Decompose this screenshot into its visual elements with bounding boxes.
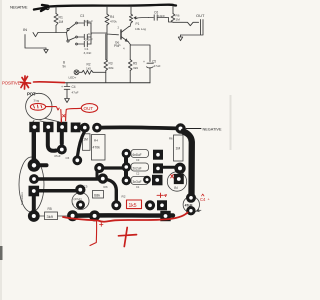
- svg-text:3n3uF: 3n3uF: [133, 180, 142, 184]
- small pad row3 body end: [144, 176, 151, 183]
- svg-text:6.8nF: 6.8nF: [85, 19, 93, 23]
- capacitor C3: [76, 22, 78, 24]
- resistor R2: [79, 71, 82, 73]
- svg-text:C6: C6: [66, 156, 70, 160]
- trace pad to pad vertical: [96, 171, 99, 178]
- red plus near IN: [157, 193, 167, 197]
- negative pad: [176, 124, 185, 133]
- svg-text:R6: R6: [169, 137, 173, 141]
- wire caps join: [91, 23, 107, 44]
- svg-text:LED+: LED+: [69, 76, 77, 80]
- trace SP3 down: [60, 132, 64, 144]
- wire emitter node: [128, 42, 150, 62]
- potentiometer P1: [129, 14, 132, 23]
- svg-text:+: +: [61, 85, 63, 89]
- svg-text:R1: R1: [59, 16, 63, 20]
- svg-text:3,3nF: 3,3nF: [84, 51, 92, 55]
- top long trace to negative pad: [101, 125, 176, 130]
- svg-text:R2: R2: [122, 195, 126, 199]
- svg-text:R5: R5: [133, 62, 137, 66]
- R3 outline 68k: [104, 185, 108, 189]
- resistor R3: [104, 60, 108, 71]
- capacitor C6: [149, 15, 167, 20]
- label IN: [23, 27, 27, 32]
- C6 pcb label 47uF: [54, 154, 70, 160]
- svg-text:1M: 1M: [83, 138, 88, 142]
- C5 outline (pencil circle on pcb): [72, 193, 89, 210]
- battery label B 9v: [63, 61, 67, 69]
- svg-text:1k5: 1k5: [129, 203, 137, 209]
- svg-text:R4: R4: [94, 139, 98, 143]
- transistor outline (pencil ellipse): [19, 157, 44, 212]
- red 1k5 box: [127, 200, 142, 209]
- svg-text:470k: 470k: [110, 20, 117, 24]
- svg-text:C3: C3: [136, 158, 140, 162]
- cap left pad row1: [122, 149, 130, 157]
- input jack: [25, 35, 46, 49]
- transistor leg1 pad: [28, 159, 46, 171]
- red C4 label: [200, 197, 211, 202]
- svg-text:POT: POT: [27, 92, 36, 97]
- ground (output): [178, 35, 182, 41]
- square pad SP3: [57, 122, 66, 131]
- svg-text:470k: 470k: [93, 146, 101, 150]
- svg-text:C2: C2: [136, 172, 140, 176]
- LED D1: [74, 70, 79, 75]
- svg-text:C4: C4: [72, 85, 76, 89]
- label POSITIVE (red): [2, 81, 21, 86]
- square pad SP4: [71, 123, 80, 132]
- IN square pad: [174, 174, 183, 183]
- ground (input jack): [44, 48, 48, 53]
- arrow to C4 bottom pad: [197, 209, 201, 212]
- svg-text:C5: C5: [152, 60, 156, 64]
- svg-text:R4: R4: [110, 15, 114, 19]
- svg-text:PNP: PNP: [114, 44, 121, 48]
- trace base pad to R2 pad: [107, 180, 117, 202]
- red X mark bottom: [119, 228, 137, 247]
- red bottom wire: [63, 213, 188, 222]
- R5 outline + 3k9: [48, 207, 52, 211]
- wire rail to R3: [105, 34, 107, 60]
- red line pot to board + arrow: [46, 106, 56, 108]
- svg-text:3 lug: 3 lug: [34, 99, 40, 103]
- pad (R4 bottom): [95, 163, 104, 172]
- pad (R2 left): [112, 201, 121, 210]
- negative rail (top, thick): [49, 5, 176, 7]
- cap right square pad row1: [154, 150, 163, 159]
- NEGATIVE pad pointer line: [186, 128, 201, 130]
- cap left pad row2: [122, 163, 130, 171]
- svg-text:68k: 68k: [109, 66, 114, 70]
- cap right square pad row2: [154, 164, 163, 173]
- pad mid (base node): [98, 174, 107, 183]
- cap left pad row3: [122, 176, 130, 184]
- wire rail to R4: [106, 6, 108, 14]
- red stub down from bottom wire: [90, 221, 97, 246]
- switch SW1: [67, 28, 69, 30]
- C4 pad top: [187, 193, 196, 202]
- wire R4 to base node: [107, 25, 119, 60]
- red tick above SP3: [60, 119, 62, 122]
- red annotations: [2, 76, 211, 247]
- positive rail (bottom of schematic): [64, 82, 150, 84]
- capacitor C5: [147, 63, 154, 68]
- svg-text:NEGATIVE: NEGATIVE: [10, 4, 28, 9]
- C5 pcb pad: [77, 201, 85, 209]
- svg-text:2n2uF: 2n2uF: [133, 166, 142, 170]
- pot wire lines to pads: [33, 119, 59, 123]
- round pad RPa: [80, 123, 89, 132]
- red tick SP3: [63, 115, 66, 118]
- wire output node to jack: [173, 22, 199, 25]
- R2 right pads: [145, 201, 154, 210]
- bottom pad 2: [90, 211, 100, 221]
- page left edge shadow: [0, 0, 2, 300]
- red tick at IN pad: [171, 174, 174, 178]
- thick copper traces: [28, 122, 195, 221]
- ground (C4): [65, 97, 70, 103]
- transistor leg3 square pad + trace right: [29, 186, 76, 196]
- cap column vertical trace: [124, 151, 128, 181]
- C4 outline (pencil circle, big electrolytic): [183, 196, 199, 212]
- svg-text:10k Log: 10k Log: [135, 27, 146, 31]
- big right pad (row2): [175, 163, 185, 173]
- square pad SP1: [30, 122, 39, 131]
- red wire lug2 down to SP3: [60, 110, 63, 122]
- wire rail to P1: [130, 6, 132, 14]
- trace leg3 down to bottom pad: [32, 196, 36, 211]
- negative rail arrow blob: [34, 5, 49, 11]
- trace SP1 down: [32, 132, 36, 160]
- svg-text:IN: IN: [174, 186, 178, 190]
- resistor R1: [54, 14, 58, 26]
- C4 pad bottom: [187, 207, 195, 215]
- red scribble X (positive lead): [21, 76, 31, 89]
- right edge trace down to C4: [184, 132, 192, 195]
- svg-text:C3: C3: [80, 14, 84, 18]
- transistor Q1: [120, 30, 122, 39]
- svg-text:47uF: 47uF: [154, 64, 161, 68]
- trace row2 right to big pad: [162, 166, 175, 169]
- bottom trace: [72, 213, 173, 218]
- svg-text:68k: 68k: [94, 194, 100, 198]
- R4 outline 470k: [92, 135, 106, 161]
- svg-text:9v: 9v: [63, 65, 67, 69]
- pad below SP2/SP3: [57, 145, 66, 154]
- resistor R6: [172, 6, 174, 14]
- wire C6 to output node: [166, 18, 172, 23]
- label NEGATIVE (schematic): [10, 4, 28, 9]
- svg-text:R3: R3: [104, 185, 108, 189]
- svg-text:IN: IN: [23, 27, 27, 32]
- trace base pad to cap column: [104, 166, 124, 169]
- svg-text:+: +: [72, 203, 74, 207]
- trace SP2 down, curve to pad: [48, 132, 56, 151]
- red OUT oval: [81, 104, 97, 113]
- svg-text:OUT: OUT: [84, 106, 94, 111]
- bottom left pad (R5 left): [28, 211, 39, 222]
- svg-text:47uF: 47uF: [72, 91, 79, 95]
- R6 outline on pcb (1M box): [174, 135, 184, 161]
- red pot lug oval: [30, 103, 45, 110]
- svg-text:R5: R5: [48, 207, 52, 211]
- pot outline (pencil circle): [26, 93, 52, 119]
- svg-text:1M: 1M: [176, 147, 181, 151]
- red positive wire to schematic rail: [34, 81, 65, 84]
- bottom pad 1: [68, 211, 78, 221]
- svg-text:C4: C4: [200, 197, 206, 202]
- trace SP4 to round pads: [80, 126, 84, 129]
- R6 outline 1M: [83, 134, 91, 151]
- svg-text:3k9: 3k9: [133, 66, 138, 70]
- resistor R5: [129, 45, 131, 60]
- svg-text:1M: 1M: [176, 18, 181, 22]
- cap right square pad row3: [153, 175, 163, 185]
- svg-text:R3: R3: [109, 62, 113, 66]
- svg-text:1k5: 1k5: [86, 67, 91, 71]
- capacitor C1: [76, 43, 78, 45]
- output jack: [181, 20, 204, 36]
- bottom square pad: [161, 211, 170, 220]
- svg-text:47uF: 47uF: [54, 154, 61, 158]
- page right edge shadow: [230, 95, 232, 150]
- round pad RPb: [93, 123, 102, 132]
- svg-text:P1: P1: [136, 22, 140, 26]
- transistor leg2 pad + trace right: [30, 175, 98, 184]
- wire R1 to input node: [55, 26, 57, 33]
- square pad SP2: [44, 122, 53, 131]
- R2 pcb label: [122, 195, 126, 199]
- trace RPa curve down to pad: [78, 132, 85, 157]
- pad (emitter node): [76, 185, 85, 194]
- svg-text:2,2nF: 2,2nF: [85, 38, 93, 42]
- capacitor C4: [64, 83, 70, 97]
- cap body outlines C3 C2 C1 on pcb: [131, 150, 149, 158]
- svg-text:1M: 1M: [59, 20, 64, 24]
- wire rail to R1: [55, 7, 57, 14]
- svg-text:6n8uF: 6n8uF: [133, 153, 142, 157]
- svg-text:C1: C1: [136, 185, 140, 189]
- IN label circled (pcb): [167, 172, 186, 191]
- red wire OUT to SP3: [66, 108, 81, 121]
- pad (R6 bottom): [73, 156, 82, 165]
- svg-text:OUT: OUT: [196, 13, 205, 18]
- svg-text:10nF: 10nF: [158, 14, 165, 18]
- label OUT: [196, 13, 205, 18]
- svg-text:3k9: 3k9: [47, 214, 54, 219]
- capacitor C2: [76, 36, 78, 38]
- wire input to switch: [38, 32, 67, 34]
- resistor R4: [105, 14, 109, 25]
- svg-text:+: +: [143, 60, 145, 64]
- svg-text:Transistor: Transistor: [20, 192, 24, 205]
- svg-text:POSITIVE: POSITIVE: [2, 81, 21, 86]
- svg-text:NEGATIVE: NEGATIVE: [203, 127, 222, 131]
